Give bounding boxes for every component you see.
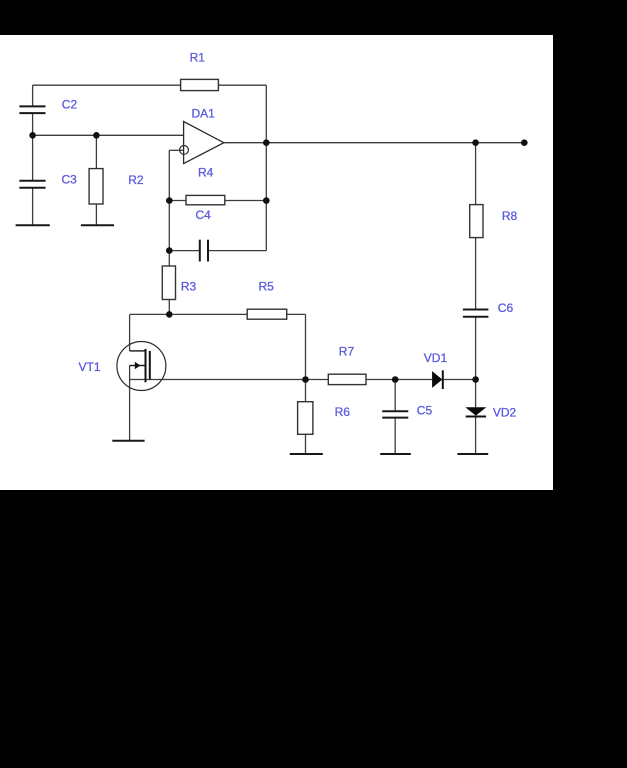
resistor R7: [328, 374, 366, 384]
wire R4 left lead: [169, 200, 186, 202]
capacitor C2: [19, 105, 45, 107]
svg-text:C5: C5: [417, 404, 433, 418]
node opamp output junction: [263, 139, 270, 146]
resistor R3: [162, 266, 175, 300]
wire C4 right lead: [208, 250, 266, 252]
svg-text:C3: C3: [62, 173, 78, 187]
wire C5 top lead: [394, 380, 396, 412]
wire R5 right lead: [287, 313, 306, 315]
svg-text:C2: C2: [62, 97, 78, 111]
ground VT1: [112, 440, 144, 442]
resistor R1: [181, 79, 219, 90]
resistor R6: [298, 402, 313, 435]
wire C2 bottom lead: [32, 113, 34, 135]
wire C4 left lead: [169, 250, 200, 252]
svg-text:R6: R6: [335, 405, 351, 419]
wire node to VD2 anode: [475, 380, 477, 408]
wire gate node horizontal: [130, 313, 248, 315]
diode VD2: [465, 407, 486, 416]
node output terminal: [521, 139, 528, 146]
wire VT1 source vertical to ground: [129, 366, 131, 441]
node R2 junction: [93, 132, 100, 139]
resistor R4: [186, 195, 225, 204]
svg-text:C4: C4: [196, 208, 212, 222]
ground C5: [380, 453, 411, 455]
wire R3 top lead: [168, 251, 170, 266]
node R4 left junction: [166, 197, 173, 204]
wire R3 bottom lead: [168, 300, 170, 315]
svg-text:R4: R4: [198, 165, 214, 179]
wire vertical R1 to C4 right: [265, 85, 267, 250]
wire opamp output: [224, 142, 525, 144]
wire R2 bottom lead: [95, 204, 97, 225]
wire C6 bottom to node: [475, 317, 477, 380]
svg-text:R7: R7: [339, 345, 355, 359]
svg-text:R3: R3: [181, 279, 197, 293]
wire VD2 cathode to ground: [475, 417, 477, 455]
op-amp DA1: [180, 122, 224, 164]
ground VD2: [457, 453, 488, 455]
svg-text:C6: C6: [498, 301, 514, 315]
wire R7 left lead: [306, 379, 329, 381]
wire R6 bottom lead: [305, 434, 307, 454]
wire gate vertical into VT1: [129, 314, 131, 351]
svg-text:VD2: VD2: [493, 406, 517, 420]
resistor R2: [89, 169, 103, 204]
ground R6: [290, 453, 323, 455]
transistor VT1: [117, 342, 166, 391]
wire C2 top lead: [32, 85, 34, 106]
wire node to opamp noninverting input: [33, 134, 184, 136]
svg-text:R8: R8: [502, 209, 518, 223]
wire inverting input horizontal: [169, 149, 183, 151]
wire top horizontal left of R1: [33, 84, 181, 86]
wire drain horizontal to node: [130, 379, 306, 381]
wire C5 bottom lead: [394, 418, 396, 454]
svg-text:R5: R5: [259, 279, 275, 293]
capacitor C5: [382, 410, 408, 412]
wire inverting input vertical: [168, 150, 170, 250]
resistor R5: [247, 309, 287, 319]
svg-text:VD1: VD1: [424, 351, 448, 365]
svg-text:VT1: VT1: [79, 360, 101, 374]
wire C3 top lead: [32, 135, 34, 181]
node C2/C3 junction: [29, 132, 36, 139]
wire R7 right lead: [366, 379, 395, 381]
capacitor C3: [19, 180, 45, 182]
node R7/C5/VD1 junction: [392, 376, 399, 383]
node R3/R5 junction: [166, 311, 173, 318]
node VD1/C6/VD2 junction: [472, 376, 479, 383]
capacitor C4: [199, 240, 201, 262]
wire R4 right lead: [225, 200, 266, 202]
wire VD1 cathode to node: [443, 379, 476, 381]
node drain/R6/R7 junction: [302, 376, 309, 383]
svg-text:DA1: DA1: [192, 106, 216, 120]
wire R2 top lead: [95, 135, 97, 168]
ground R2: [81, 224, 114, 226]
node R8 top junction: [472, 139, 479, 146]
svg-text:R2: R2: [128, 173, 144, 187]
node C4 left junction: [166, 247, 173, 254]
wire node to VD1 anode: [395, 379, 432, 381]
wire C3 bottom lead: [32, 188, 34, 226]
capacitor C6: [463, 309, 489, 311]
node R4 right junction: [263, 197, 270, 204]
wire R5 corner vertical: [305, 314, 307, 379]
wire R8 bottom to C6: [475, 238, 477, 310]
resistor R8: [470, 205, 483, 238]
svg-text:R1: R1: [190, 50, 206, 64]
ground C3: [16, 224, 50, 226]
wire R8 top lead: [475, 143, 477, 205]
diode VD1: [432, 370, 443, 389]
wire R6 top lead: [305, 380, 307, 402]
wire top horizontal right of R1: [219, 84, 267, 86]
